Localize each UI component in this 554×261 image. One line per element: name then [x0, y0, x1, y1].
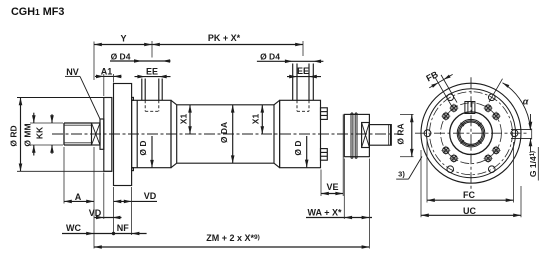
svg-text:α: α [523, 97, 529, 107]
svg-text:Ø RD: Ø RD [9, 125, 19, 146]
svg-text:Ø D: Ø D [138, 140, 148, 155]
svg-text:CGH1 MF3: CGH1 MF3 [11, 6, 64, 18]
svg-text:VE: VE [326, 182, 338, 192]
svg-text:UC: UC [463, 206, 476, 216]
svg-text:NV: NV [66, 67, 79, 77]
svg-text:X1: X1 [251, 114, 261, 125]
svg-text:A: A [75, 192, 82, 202]
svg-text:ZM + 2 x X*9): ZM + 2 x X*9) [206, 233, 260, 243]
svg-text:NF: NF [117, 223, 129, 233]
svg-text:Ø D4: Ø D4 [111, 52, 131, 62]
svg-text:PK + X*: PK + X* [208, 33, 241, 43]
svg-text:WA + X*: WA + X* [308, 207, 342, 217]
svg-text:Ø D: Ø D [293, 140, 303, 155]
svg-text:EE: EE [146, 67, 158, 77]
svg-text:WC: WC [66, 223, 81, 233]
svg-text:FC: FC [463, 190, 475, 200]
svg-text:KK: KK [35, 126, 45, 139]
svg-text:VD: VD [144, 191, 157, 201]
svg-text:Y: Y [120, 33, 126, 43]
svg-text:Ø D4: Ø D4 [260, 52, 280, 62]
svg-text:Ø DA: Ø DA [219, 122, 229, 143]
svg-text:X1: X1 [179, 114, 189, 125]
svg-text:Ø RA: Ø RA [396, 123, 406, 144]
svg-text:3): 3) [398, 170, 405, 179]
svg-text:EE: EE [297, 66, 309, 76]
svg-text:Ø MM: Ø MM [23, 123, 33, 146]
svg-text:A1: A1 [101, 67, 113, 77]
